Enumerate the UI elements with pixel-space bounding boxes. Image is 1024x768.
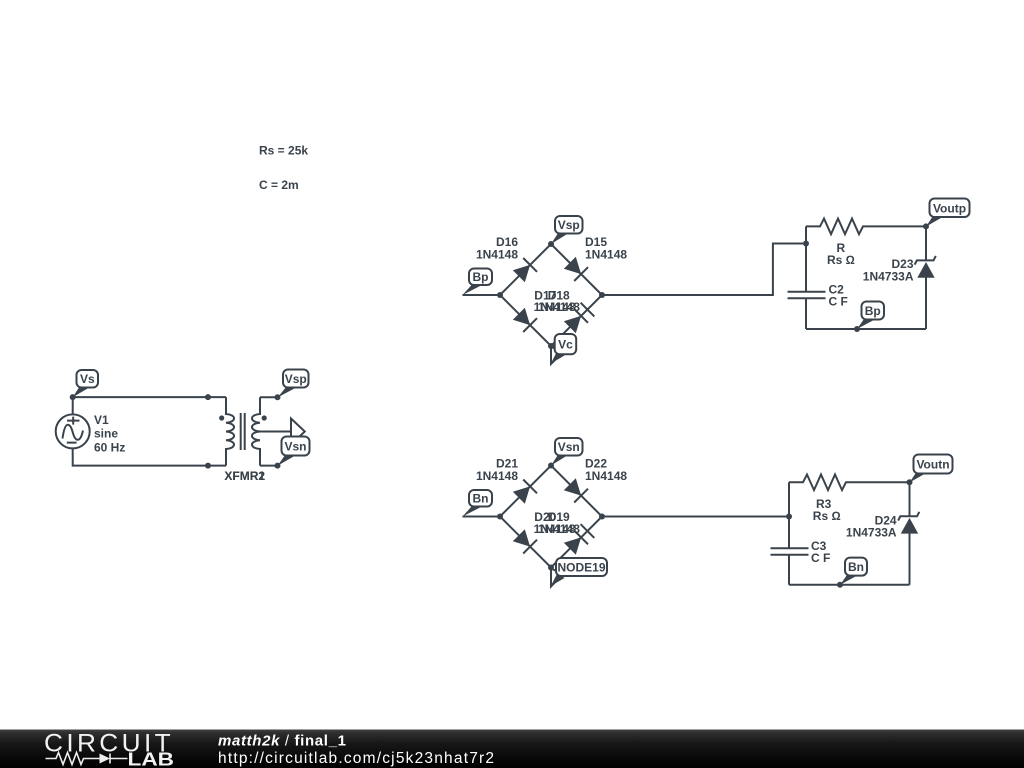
svg-text:1N4148: 1N4148 [538,522,580,536]
svg-text:Rs Ω: Rs Ω [813,509,841,523]
tag Vsn at bridge [551,438,583,466]
svg-text:1N4148: 1N4148 [476,247,518,261]
resistor R [806,219,926,235]
wire left vertical lower loop [788,482,790,584]
svg-text:Bn: Bn [473,492,489,506]
tag Vsp at transformer [278,370,309,398]
tag Voutn [910,455,953,483]
svg-text:LAB: LAB [128,749,175,768]
junction dot primary bottom [205,463,211,469]
wire stub below NODE19 node [550,568,552,587]
svg-text:http://circuitlab.com/cj5k23nh: http://circuitlab.com/cj5k23nhat7r2 [218,750,495,767]
node bridge right dot [599,292,605,298]
tag Voutp [926,199,970,227]
svg-text:1N4148: 1N4148 [538,300,580,314]
resistor R3 [789,475,910,491]
svg-text:NODE19: NODE19 [557,561,605,575]
node secondary bottom dot [275,463,281,469]
wire center tap [260,431,291,433]
svg-text:Vc: Vc [558,338,573,352]
wire bridge output to RC loop [602,516,789,518]
junction dot upper loop input [803,241,809,247]
svg-text:Rs = 25k: Rs = 25k [259,144,308,158]
transformer core [241,413,245,450]
logo squiggle resistor [46,753,100,765]
wire right vertical lower loop [909,482,911,584]
capacitor C3 [771,548,809,555]
svg-text:Vsp: Vsp [558,218,580,232]
tag NODE19 [551,558,607,586]
tag Bn at bridge [463,490,493,517]
svg-text:Bp: Bp [865,304,881,318]
lower RC loop [771,475,910,585]
wire stub Bp [463,294,501,296]
diode D22 [564,478,588,502]
svg-text:Vs: Vs [80,372,95,386]
wire bottom rail lower loop [789,584,910,586]
wire stub below Vc node [550,346,552,364]
diode D20 [513,529,537,553]
tag Bp at loop [857,302,884,330]
tag Bn at loop [840,558,867,585]
wire bridge edges [500,466,602,568]
node secondary top dot [275,394,281,400]
wire bridge edges [500,244,602,346]
junction dot lower loop input [786,514,792,520]
svg-text:Vsn: Vsn [284,440,306,454]
svg-text:Vsn: Vsn [558,440,580,454]
tag Bp at bridge [463,269,493,296]
zener diode D23 [915,256,936,278]
svg-text:V1: V1 [94,413,109,427]
svg-text:C F: C F [811,551,830,565]
svg-text:Bn: Bn [848,560,864,574]
diode D16 [513,258,537,282]
logo squiggle diode [100,754,111,764]
transformer XFMR1/XFMR2 [219,397,305,466]
junction dot primary top [205,394,211,400]
wire top rail from source to transformer primary [73,397,226,466]
phase dot primary [219,415,224,420]
svg-text:sine: sine [94,427,118,441]
svg-text:1N4148: 1N4148 [585,247,627,261]
svg-text:C F: C F [829,295,848,309]
diode D18 [564,303,595,334]
svg-text:1N4148: 1N4148 [585,469,627,483]
svg-text:Rs Ω: Rs Ω [827,253,855,267]
svg-text:Vsp: Vsp [285,372,307,386]
svg-text:matth2k / final_1: matth2k / final_1 [218,733,347,750]
wire bridge output to RC loop [602,244,806,296]
diode D19 [564,524,595,555]
wire secondary top lead [260,396,278,398]
hidden tag tail at center tap [291,419,305,445]
diode D21 [513,480,537,504]
node bridge right dot [599,514,605,520]
hidden tag tail at Vc [551,347,563,364]
wire stub Bn [463,516,501,518]
diode D15 [564,257,588,281]
node Bp dot on bottom rail [854,326,860,332]
svg-text:60 Hz: 60 Hz [94,440,125,454]
phase dot secondary [262,415,267,420]
footer bar [0,730,1024,768]
svg-text:XFMR1: XFMR1 [224,469,265,483]
svg-text:1N4148: 1N4148 [476,469,518,483]
node bridge bottom dot [548,565,554,571]
node Vs junction dot [70,394,76,400]
node bridge top dot [548,241,554,247]
tag Vsp at bridge [551,216,583,244]
tag Vsn at transformer [278,437,310,466]
node bridge left dot [497,292,503,298]
wire bottom rail upper loop [806,328,926,330]
tag Vs [73,370,98,397]
svg-text:1N4733A: 1N4733A [863,269,914,283]
node bridge top dot [548,463,554,469]
svg-text:1N4733A: 1N4733A [846,526,897,540]
capacitor C2 [788,292,826,298]
node Voutn dot [907,479,913,485]
node Bn dot on bottom rail [837,582,843,588]
upper bridge wires [463,244,807,347]
node Voutp dot [923,223,929,229]
diode D17 [513,308,537,332]
svg-text:C = 2m: C = 2m [259,178,299,192]
wire left vertical upper loop [805,226,807,329]
zener diode D24 [898,512,919,534]
wire right vertical upper loop [925,226,927,329]
transformer primary winding [226,397,234,466]
svg-text:Voutn: Voutn [916,458,949,472]
wire secondary bottom lead [260,465,278,467]
node bridge left dot [497,514,503,520]
upper RC loop [788,219,927,329]
voltage source V1 [56,414,90,448]
transformer secondary winding [252,397,260,465]
tag Vc [551,334,576,364]
node bridge bottom dot [548,343,554,349]
lower bridge wires [463,466,790,568]
svg-text:Bp: Bp [473,270,489,284]
hidden tag tail at NODE19 [551,569,563,587]
svg-text:Voutp: Voutp [933,201,966,215]
